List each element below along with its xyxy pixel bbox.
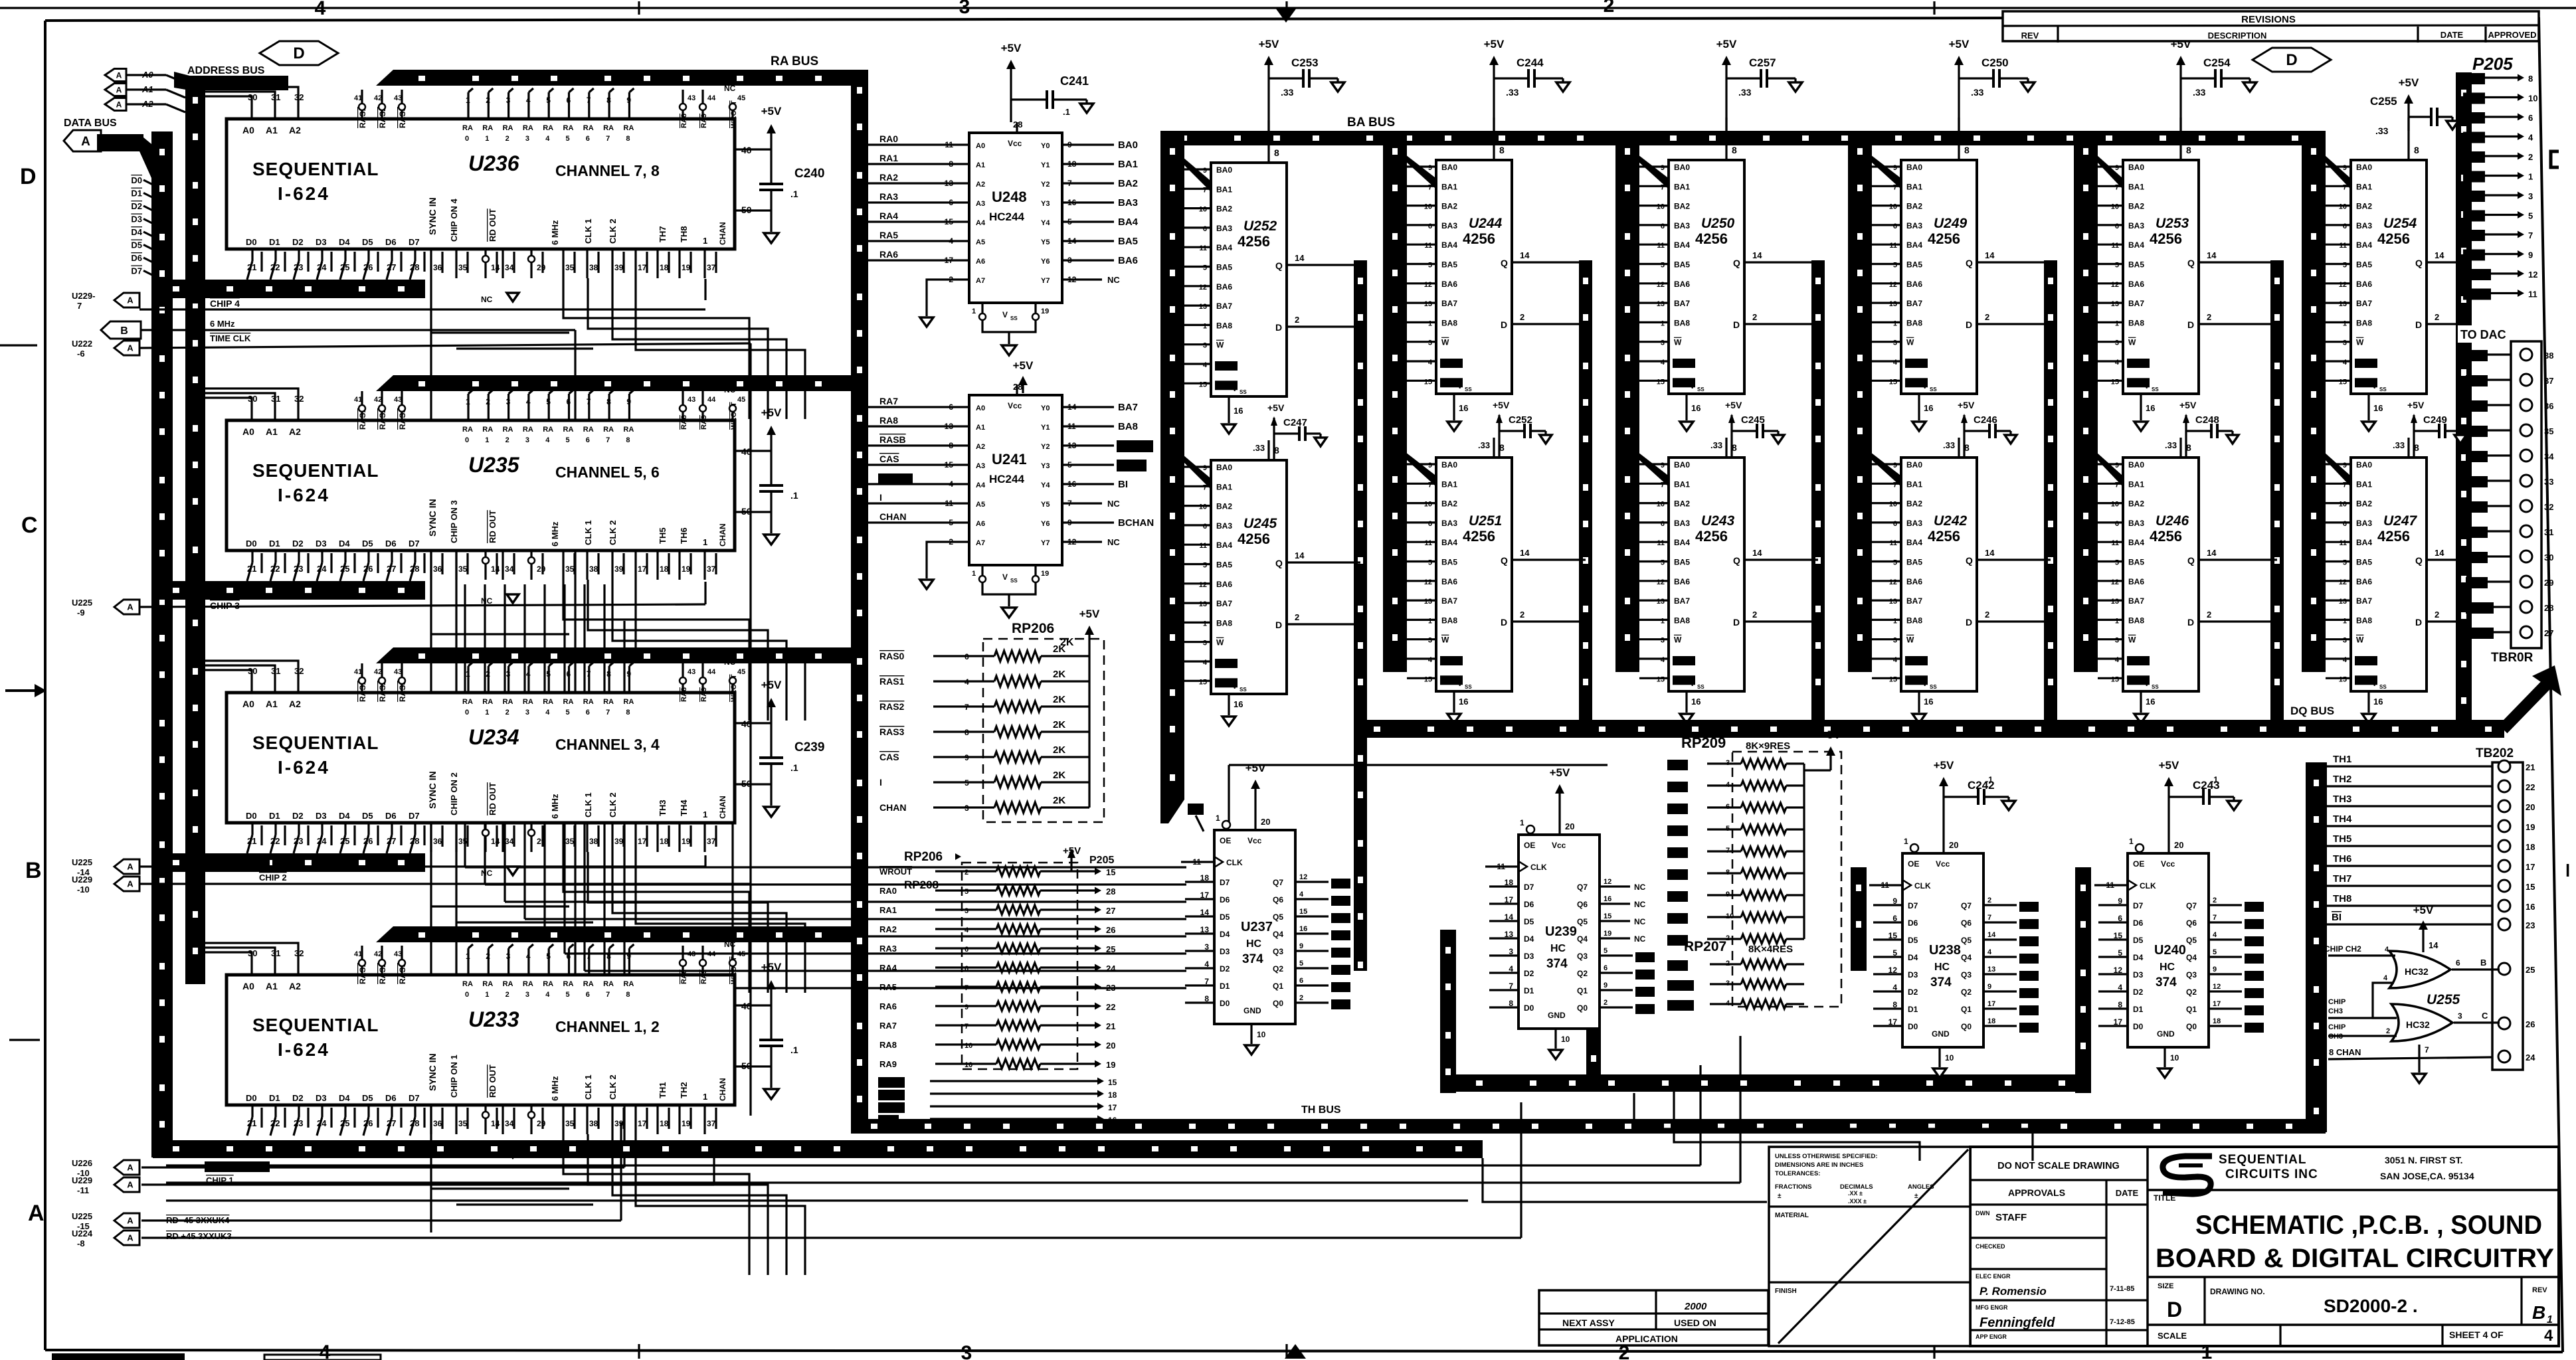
svg-text:RA: RA xyxy=(543,426,553,434)
svg-text:7: 7 xyxy=(587,397,591,406)
svg-text:6: 6 xyxy=(1893,520,1897,528)
svg-text:NC: NC xyxy=(481,295,493,304)
svg-text:V: V xyxy=(1922,680,1928,688)
svg-text:13: 13 xyxy=(2111,598,2119,606)
svg-text:6: 6 xyxy=(2343,520,2347,528)
svg-text:A: A xyxy=(116,100,122,109)
svg-text:14: 14 xyxy=(2429,940,2438,950)
svg-text:D: D xyxy=(1501,319,1507,330)
svg-text:BA6: BA6 xyxy=(2128,280,2144,289)
P205 pin D5 xyxy=(2463,171,2485,183)
svg-text:16: 16 xyxy=(2373,403,2383,413)
svg-text:CLK 1: CLK 1 xyxy=(583,792,593,817)
svg-text:CHANNEL 5, 6: CHANNEL 5, 6 xyxy=(555,464,660,481)
svg-text:Q0: Q0 xyxy=(1273,999,1283,1008)
svg-text:4: 4 xyxy=(2385,946,2389,954)
svg-text:21: 21 xyxy=(247,836,256,846)
svg-text:3: 3 xyxy=(2343,637,2347,645)
U244 ground xyxy=(1453,394,1455,420)
svg-text:+5V: +5V xyxy=(2407,400,2425,410)
svg-text:RA: RA xyxy=(623,426,634,434)
svg-text:Q: Q xyxy=(2415,555,2423,566)
svg-text:24: 24 xyxy=(317,836,327,846)
svg-text:CH3: CH3 xyxy=(2328,1033,2343,1041)
svg-text:Q0: Q0 xyxy=(1961,1022,1972,1031)
svg-text:I-624: I-624 xyxy=(278,1039,330,1060)
svg-text:DB1: DB1 xyxy=(1333,896,1348,904)
svg-text:U250: U250 xyxy=(1701,216,1735,231)
svg-text:36: 36 xyxy=(433,564,442,574)
svg-text:10: 10 xyxy=(2528,94,2537,104)
svg-text:RA: RA xyxy=(462,124,473,132)
lower DQ collector bus xyxy=(1456,1074,2091,1092)
svg-text:U254: U254 xyxy=(2383,216,2417,231)
svg-text:5: 5 xyxy=(2343,262,2347,270)
hex flag D left xyxy=(260,41,338,65)
svg-text:18: 18 xyxy=(660,837,669,846)
I-624 chip U236 xyxy=(227,119,735,249)
svg-text:BA0: BA0 xyxy=(2128,460,2144,469)
svg-text:2: 2 xyxy=(1295,315,1299,325)
svg-text:RASB: RASB xyxy=(1442,359,1461,367)
svg-text:C248: C248 xyxy=(2195,414,2219,426)
svg-text:BI: BI xyxy=(1118,479,1128,490)
BA column 1 lower extension xyxy=(1160,672,1184,800)
svg-text:SEQUENTIAL: SEQUENTIAL xyxy=(252,460,379,481)
wires from latches down-right xyxy=(1634,1093,2033,1161)
I-624 chip U233 xyxy=(227,975,735,1105)
svg-text:1: 1 xyxy=(2129,837,2134,846)
svg-text:9: 9 xyxy=(626,397,631,406)
svg-text:5: 5 xyxy=(1661,262,1665,270)
svg-text:A1: A1 xyxy=(976,424,985,432)
svg-text:13: 13 xyxy=(1199,303,1207,311)
P205 pin D7 xyxy=(2463,211,2485,222)
svg-text:TH8: TH8 xyxy=(679,226,689,242)
svg-text:18: 18 xyxy=(660,564,669,574)
TB202 pin TH5 xyxy=(2498,840,2510,852)
svg-text:38: 38 xyxy=(589,837,598,846)
svg-text:WROUT: WROUT xyxy=(880,473,913,483)
svg-text:4: 4 xyxy=(1893,359,1898,367)
svg-text:3: 3 xyxy=(506,96,511,105)
svg-text:A1: A1 xyxy=(976,161,985,169)
svg-text:BA6: BA6 xyxy=(1441,280,1457,289)
svg-text:11: 11 xyxy=(1199,244,1207,252)
svg-text:D6: D6 xyxy=(1524,900,1534,909)
svg-text:W: W xyxy=(1906,338,1914,347)
svg-text:1: 1 xyxy=(972,570,976,578)
svg-text:19: 19 xyxy=(2526,822,2535,832)
svg-text:4: 4 xyxy=(526,397,531,406)
svg-text:BA7: BA7 xyxy=(1216,599,1232,608)
svg-text:D4: D4 xyxy=(339,811,350,821)
svg-text:BA3: BA3 xyxy=(2128,221,2144,230)
svg-text:2: 2 xyxy=(2207,312,2211,322)
svg-text:W: W xyxy=(1441,636,1449,645)
svg-text:6 MHz: 6 MHz xyxy=(550,220,560,245)
svg-text:A0: A0 xyxy=(976,142,985,150)
svg-text:15: 15 xyxy=(1199,678,1207,686)
svg-text:22: 22 xyxy=(270,262,280,272)
DAC pin 28 xyxy=(2520,601,2532,613)
svg-text:D5: D5 xyxy=(1220,912,1230,922)
size / drawing no / rev row xyxy=(2148,1276,2559,1278)
svg-text:TH4: TH4 xyxy=(679,800,689,816)
svg-text:TH BUS: TH BUS xyxy=(1301,1104,1341,1116)
svg-text:4: 4 xyxy=(2383,974,2388,982)
svg-text:RA: RA xyxy=(462,980,473,988)
svg-text:3: 3 xyxy=(959,0,970,18)
svg-text:DB7: DB7 xyxy=(2021,1023,2036,1031)
svg-text:DQ10: DQ10 xyxy=(1669,980,1691,989)
svg-text:6: 6 xyxy=(2528,113,2533,123)
svg-text:RA5: RA5 xyxy=(879,982,897,992)
svg-text:U248: U248 xyxy=(992,189,1027,205)
DQ shadow bus column 3 xyxy=(1811,260,1825,724)
svg-text:14: 14 xyxy=(1295,551,1305,560)
svg-text:CLK 1: CLK 1 xyxy=(583,520,593,545)
svg-text:RA7: RA7 xyxy=(879,1021,897,1031)
svg-text:3: 3 xyxy=(2115,339,2119,347)
svg-text:7: 7 xyxy=(2425,1045,2429,1055)
svg-text:1: 1 xyxy=(2343,617,2347,625)
P205 pin D2 xyxy=(2463,112,2485,124)
svg-text:CLK: CLK xyxy=(1530,863,1547,872)
svg-text:OE: OE xyxy=(1524,841,1535,850)
svg-text:2: 2 xyxy=(486,96,490,105)
svg-text:CHECKED: CHECKED xyxy=(1976,1243,2005,1250)
DAC pin 32 xyxy=(2520,500,2532,512)
svg-text:BA4: BA4 xyxy=(1216,541,1232,550)
svg-text:D5: D5 xyxy=(2133,936,2144,945)
svg-text:6: 6 xyxy=(567,669,571,679)
svg-text:RA: RA xyxy=(563,124,574,132)
svg-text:RA: RA xyxy=(482,124,493,132)
svg-text:BA3: BA3 xyxy=(1216,521,1232,531)
svg-text:22: 22 xyxy=(270,836,280,846)
svg-text:6: 6 xyxy=(1893,222,1897,230)
svg-text:3: 3 xyxy=(506,397,511,406)
I-624 chip U234 xyxy=(227,693,735,823)
svg-text:23: 23 xyxy=(1106,983,1115,993)
svg-text:BA2: BA2 xyxy=(1216,502,1232,511)
svg-text:SEQUENTIAL: SEQUENTIAL xyxy=(252,1015,379,1035)
svg-text:BA5: BA5 xyxy=(1906,260,1922,270)
svg-text:Q2: Q2 xyxy=(1961,987,1972,997)
svg-text:7: 7 xyxy=(587,96,591,105)
svg-text:BA3: BA3 xyxy=(2356,519,2372,528)
svg-text:35: 35 xyxy=(565,837,575,846)
svg-text:BA6: BA6 xyxy=(1216,282,1232,292)
svg-text:8: 8 xyxy=(1732,442,1737,453)
svg-text:12: 12 xyxy=(1889,281,1897,289)
svg-text:RA: RA xyxy=(603,426,614,434)
svg-text:16: 16 xyxy=(2146,697,2155,707)
svg-text:7: 7 xyxy=(1987,914,1991,922)
flag U225-9 xyxy=(114,600,139,614)
svg-text:Q7: Q7 xyxy=(1577,883,1588,892)
svg-text:7: 7 xyxy=(1203,186,1207,194)
latch U237 HC374 xyxy=(1214,830,1295,1024)
svg-text:APP ENGR: APP ENGR xyxy=(1976,1333,2007,1340)
DQ shadow bus column 4 xyxy=(2044,260,2057,724)
svg-text:BA8: BA8 xyxy=(1216,321,1232,330)
company cell with logo xyxy=(2148,1189,2559,1191)
svg-text:BA5: BA5 xyxy=(2128,260,2144,270)
svg-text:BA0: BA0 xyxy=(1441,460,1457,469)
svg-text:7: 7 xyxy=(1428,183,1432,191)
svg-text:HC: HC xyxy=(1934,962,1950,973)
svg-text:A7: A7 xyxy=(976,539,985,547)
svg-text:BA1: BA1 xyxy=(1216,185,1232,194)
svg-text:BA8: BA8 xyxy=(1674,318,1690,327)
svg-text:BA2: BA2 xyxy=(1906,202,1922,211)
svg-text:34: 34 xyxy=(505,564,514,574)
svg-text:STAFF: STAFF xyxy=(1995,1212,2027,1223)
svg-text:U240: U240 xyxy=(2154,943,2186,958)
svg-text:DB4: DB4 xyxy=(1333,879,1348,887)
svg-text:10: 10 xyxy=(1199,503,1207,511)
svg-text:9: 9 xyxy=(2343,164,2347,172)
svg-text:BA2: BA2 xyxy=(2356,202,2372,211)
svg-text:1: 1 xyxy=(703,1092,707,1102)
svg-text:44: 44 xyxy=(707,94,716,102)
svg-text:4: 4 xyxy=(1661,359,1665,367)
svg-text:DWN: DWN xyxy=(1976,1210,1990,1217)
svg-text:TH5: TH5 xyxy=(2333,833,2351,845)
svg-text:10: 10 xyxy=(2339,203,2347,211)
svg-text:DQ11: DQ11 xyxy=(1669,1000,1690,1009)
svg-text:23: 23 xyxy=(294,564,303,574)
svg-text:BA1: BA1 xyxy=(1906,182,1922,191)
svg-text:Vcc: Vcc xyxy=(1008,139,1022,148)
U236 control wire elbows xyxy=(563,278,749,419)
svg-text:DQ6: DQ6 xyxy=(1637,970,1653,978)
svg-text:6 MHz: 6 MHz xyxy=(550,1076,560,1101)
svg-text:35: 35 xyxy=(458,564,468,574)
svg-text:3: 3 xyxy=(525,436,529,444)
svg-text:11: 11 xyxy=(2528,290,2537,299)
svg-text:44: 44 xyxy=(707,950,716,958)
svg-text:D7: D7 xyxy=(1220,878,1230,887)
zone tick marks xyxy=(638,1,640,15)
svg-text:Vcc: Vcc xyxy=(1008,401,1022,410)
svg-text:D: D xyxy=(2187,319,2194,330)
svg-text:CHAN: CHAN xyxy=(718,796,727,819)
data feeder under U235 xyxy=(153,581,425,600)
svg-text:SHEET 4 OF: SHEET 4 OF xyxy=(2449,1329,2504,1340)
svg-text:BA5: BA5 xyxy=(2356,558,2372,567)
svg-text:HC244: HC244 xyxy=(989,211,1024,223)
svg-text:5: 5 xyxy=(1299,960,1303,968)
svg-text:4: 4 xyxy=(1428,359,1433,367)
svg-text:.33: .33 xyxy=(1478,440,1490,450)
svg-text:RA: RA xyxy=(543,980,553,988)
svg-text:RA: RA xyxy=(543,698,553,706)
U251 Vcc pin xyxy=(1493,438,1495,458)
svg-text:4: 4 xyxy=(2343,656,2347,664)
svg-text:+5V: +5V xyxy=(1550,766,1570,779)
svg-text:D1: D1 xyxy=(1524,986,1534,995)
U233 misc bottom pins xyxy=(430,1105,432,1134)
svg-text:20: 20 xyxy=(1261,817,1270,827)
svg-text:2K: 2K xyxy=(1053,719,1065,730)
svg-text:BA7: BA7 xyxy=(1906,299,1922,308)
svg-text:C241: C241 xyxy=(1060,74,1089,88)
svg-text:Q7: Q7 xyxy=(1961,901,1972,910)
svg-text:TH1: TH1 xyxy=(2333,754,2351,765)
svg-text:2K: 2K xyxy=(1053,744,1065,756)
svg-text:Q1: Q1 xyxy=(2186,1005,2197,1014)
U253 Vcc pin xyxy=(2179,118,2181,160)
svg-text:V: V xyxy=(1002,572,1008,582)
svg-text:5: 5 xyxy=(546,952,551,961)
RA feeder bus (thick) xyxy=(376,647,868,663)
svg-text:RAS3: RAS3 xyxy=(880,1102,901,1112)
svg-text:15: 15 xyxy=(1657,378,1665,386)
svg-text:BA5: BA5 xyxy=(2356,260,2372,270)
svg-text:Q4: Q4 xyxy=(1577,934,1588,944)
svg-text:1: 1 xyxy=(1203,322,1207,330)
svg-text:BA2: BA2 xyxy=(1118,178,1138,189)
svg-text:6 MHz: 6 MHz xyxy=(550,794,560,819)
svg-text:RA1: RA1 xyxy=(879,905,897,915)
TB202 pin TH6 xyxy=(2498,860,2510,872)
svg-text:3: 3 xyxy=(525,991,529,999)
svg-text:RAS2: RAS2 xyxy=(879,701,905,712)
svg-text:7: 7 xyxy=(1203,483,1207,491)
svg-text:DATE: DATE xyxy=(2116,1188,2139,1198)
svg-text:5: 5 xyxy=(2343,559,2347,567)
svg-text:CHANNEL 7, 8: CHANNEL 7, 8 xyxy=(555,162,660,179)
svg-text:3: 3 xyxy=(506,952,511,961)
svg-text:SYNC IN: SYNC IN xyxy=(427,771,438,809)
svg-text:4: 4 xyxy=(1299,891,1304,898)
svg-text:26: 26 xyxy=(363,262,373,272)
DQ BUS end arrow to TBR xyxy=(2503,683,2548,729)
svg-text:D7: D7 xyxy=(1908,901,1918,910)
svg-text:BA0: BA0 xyxy=(1906,163,1922,172)
TB202 pin TH2 xyxy=(2498,780,2510,792)
svg-text:2: 2 xyxy=(506,709,509,717)
svg-text:43: 43 xyxy=(394,668,402,676)
svg-text:BA2: BA2 xyxy=(1906,499,1922,509)
svg-text:6: 6 xyxy=(2456,958,2460,968)
svg-text:35: 35 xyxy=(565,263,575,272)
TB202 pin TH1 xyxy=(2498,760,2510,772)
svg-text:4256: 4256 xyxy=(1463,528,1495,545)
svg-text:11: 11 xyxy=(2111,242,2119,250)
RA feeder bus (thick) xyxy=(376,375,868,391)
svg-text:U253: U253 xyxy=(2156,216,2189,231)
svg-text:Vcc: Vcc xyxy=(1936,859,1950,869)
svg-text:RASB: RASB xyxy=(1907,359,1926,367)
svg-text:BA1: BA1 xyxy=(2128,182,2144,191)
resistor RP209-5 xyxy=(1667,847,1688,858)
svg-text:4256: 4256 xyxy=(1238,233,1270,250)
svg-text:U234: U234 xyxy=(468,725,519,749)
svg-text:RD +45 3XXUK3: RD +45 3XXUK3 xyxy=(166,1231,232,1241)
svg-text:HC32: HC32 xyxy=(2406,1019,2430,1030)
svg-text:D: D xyxy=(1966,319,1972,330)
svg-text:RASB: RASB xyxy=(2357,657,2375,664)
svg-text:20: 20 xyxy=(2526,802,2535,812)
svg-text:12: 12 xyxy=(1199,284,1207,292)
svg-text:39: 39 xyxy=(614,564,624,574)
svg-text:D0: D0 xyxy=(1220,999,1230,1008)
svg-text:Q6: Q6 xyxy=(1577,900,1588,909)
svg-text:8: 8 xyxy=(626,709,630,717)
svg-text:C246: C246 xyxy=(1974,414,1997,426)
svg-text:USED ON: USED ON xyxy=(1674,1317,1716,1328)
svg-text:12: 12 xyxy=(2528,270,2537,280)
svg-text:RA9: RA9 xyxy=(700,415,708,430)
svg-text:-10: -10 xyxy=(77,885,90,894)
svg-text:BRASB: BRASB xyxy=(1119,440,1152,451)
svg-text:RA1: RA1 xyxy=(879,153,898,163)
svg-text:SEQUENTIAL: SEQUENTIAL xyxy=(252,732,379,753)
sequential circuits logo glyph xyxy=(2163,1156,2212,1194)
svg-text:TH4: TH4 xyxy=(2333,813,2352,825)
svg-text:P. Romensio: P. Romensio xyxy=(1979,1285,2047,1298)
svg-text:Q5: Q5 xyxy=(1273,912,1283,922)
svg-text:8: 8 xyxy=(626,436,630,444)
svg-text:6: 6 xyxy=(567,96,571,105)
svg-text:.1: .1 xyxy=(1986,775,1993,784)
resistor RP209-2 xyxy=(1667,782,1688,792)
svg-text:7: 7 xyxy=(2343,481,2347,489)
U249 ground xyxy=(1918,394,1920,420)
svg-text:+5V: +5V xyxy=(1821,728,1841,741)
svg-text:+5V: +5V xyxy=(1267,402,1285,413)
svg-text:7: 7 xyxy=(2213,914,2217,922)
svg-text:RCAS: RCAS xyxy=(1119,460,1145,470)
BA vertical bus column 1 xyxy=(1160,131,1184,672)
svg-text:19: 19 xyxy=(1106,1060,1115,1070)
U243 ground xyxy=(1685,691,1687,713)
svg-text:RA9: RA9 xyxy=(700,970,708,984)
svg-text:D5: D5 xyxy=(362,539,373,549)
svg-text:BA4: BA4 xyxy=(2356,538,2372,547)
svg-text:43: 43 xyxy=(688,396,695,404)
svg-text:D0: D0 xyxy=(1524,1003,1534,1013)
svg-text:SS: SS xyxy=(1240,389,1247,395)
svg-text:U225: U225 xyxy=(72,857,92,867)
svg-text:+5V: +5V xyxy=(1001,42,1022,54)
DRAM U249 4256 xyxy=(1901,160,1977,394)
RAS strobe arrows to P205 xyxy=(878,1077,905,1088)
svg-text:A6: A6 xyxy=(976,520,985,528)
svg-text:3: 3 xyxy=(1661,637,1665,645)
svg-text:2: 2 xyxy=(1295,612,1299,622)
svg-text:RASB: RASB xyxy=(1675,359,1693,367)
I-624 chip U235 xyxy=(227,420,735,551)
svg-text:4: 4 xyxy=(2528,133,2533,143)
svg-text:11: 11 xyxy=(1889,539,1897,547)
svg-text:36: 36 xyxy=(433,1119,442,1128)
svg-text:D: D xyxy=(293,44,304,62)
svg-text:RA8: RA8 xyxy=(879,415,898,426)
svg-text:4256: 4256 xyxy=(2377,528,2410,545)
svg-text:TH7: TH7 xyxy=(658,226,668,242)
svg-text:BA6: BA6 xyxy=(1906,280,1922,289)
svg-text:17: 17 xyxy=(1108,1103,1117,1112)
BA vertical bus column 2 xyxy=(1383,131,1407,672)
svg-text:V: V xyxy=(2372,382,2377,390)
U251 ground xyxy=(1453,691,1455,713)
svg-text:Q0: Q0 xyxy=(1577,1003,1588,1013)
